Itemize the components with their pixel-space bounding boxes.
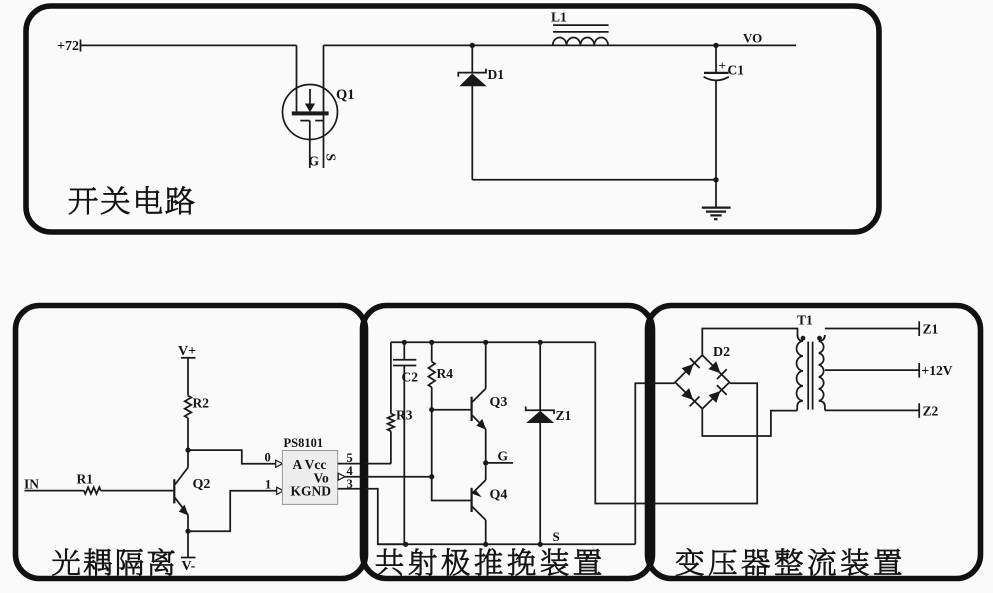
node Q2 emitter junction <box>185 529 190 534</box>
wire IN to R1 <box>25 490 84 492</box>
svg-text:R4: R4 <box>437 366 454 381</box>
node Q2 collector junction <box>185 448 190 453</box>
node V+ tick <box>181 357 196 359</box>
svg-text:S: S <box>553 529 560 544</box>
svg-text:C2: C2 <box>402 370 419 385</box>
svg-text:D2: D2 <box>713 345 730 360</box>
svg-text:C1: C1 <box>728 63 745 78</box>
wire emitter node to opto pin1 <box>188 491 278 531</box>
wire secondary bottom to Z2 terminal <box>825 409 919 411</box>
pin arrow into PS8101 pin K (1) <box>277 487 284 494</box>
node rail/Q3 collector <box>483 340 488 345</box>
svg-text:Z2: Z2 <box>923 404 939 419</box>
wire bridge bottom to T1 primary bottom <box>702 409 797 436</box>
wire G stub <box>486 462 513 464</box>
wire Q1 gate vertical (G) <box>309 121 311 168</box>
node Z2 terminal tick <box>918 403 920 418</box>
node R4/Q3 base <box>429 407 434 412</box>
svg-text:0: 0 <box>265 451 271 465</box>
diode D1 (zener) <box>458 45 486 179</box>
wire pin3 KGND to S rail <box>338 489 406 545</box>
svg-text:Z1: Z1 <box>556 408 572 423</box>
wire emitter to V- <box>187 531 189 557</box>
wire V+ to R2 <box>187 358 189 396</box>
label 光耦隔离 (optocoupler isolation) <box>52 548 174 575</box>
node V- tick <box>181 557 196 559</box>
box: transformer rectifier 变压器整流装置 <box>648 306 981 579</box>
svg-text:D1: D1 <box>488 67 505 82</box>
wire secondary top to Z1 terminal <box>825 328 919 330</box>
node S rail/Q4 emitter <box>483 542 488 547</box>
label 开关电路 (switching circuit) <box>69 186 194 214</box>
wire top rail <box>391 341 595 343</box>
wire Q1 source vertical (S) <box>323 45 325 168</box>
resistor R3 <box>388 414 395 432</box>
node rail/R4 <box>429 340 434 345</box>
wire collector node to opto pin0 <box>188 450 277 464</box>
svg-text:G: G <box>309 154 320 169</box>
svg-text:Q2: Q2 <box>193 477 211 492</box>
wire +72 bus to Q1 drain <box>81 44 297 46</box>
capacitor C1 (polarized) <box>704 45 729 179</box>
node +72 input tick <box>80 40 82 52</box>
wire R1 to Q2 base <box>101 490 175 492</box>
svg-text:5: 5 <box>347 451 353 465</box>
capacitor C2 <box>393 342 416 544</box>
svg-text:Q1: Q1 <box>336 87 355 103</box>
wire top bus Q1 source to VO <box>324 44 797 46</box>
transformer T1 secondary coil <box>819 335 825 410</box>
diode D2b (top-right) <box>709 361 727 379</box>
node rail/C2 <box>402 340 407 345</box>
svg-text:R1: R1 <box>77 472 94 487</box>
svg-text:R2: R2 <box>193 396 210 411</box>
pin arrow into PS8101 pin A (0) <box>276 460 283 467</box>
transistor Q2 (NPN) <box>174 450 188 531</box>
rectifier bridge D2 diamond <box>675 355 729 409</box>
svg-text:+: + <box>719 58 726 73</box>
wire bridge top to T1 primary top <box>702 329 797 356</box>
wire R3 branch top <box>390 342 392 413</box>
transistor Q1 (MOSFET in circle) <box>283 85 338 140</box>
op-amp U1: optocoupler PS8101 <box>282 451 337 505</box>
svg-text:KGND: KGND <box>291 484 332 499</box>
svg-text:Q3: Q3 <box>490 395 508 410</box>
svg-text:Z1: Z1 <box>923 322 939 337</box>
diode D2a (top-left) <box>682 358 700 376</box>
wire S rail to bridge left <box>635 383 675 544</box>
svg-text:PS8101: PS8101 <box>284 436 324 450</box>
resistor R1 <box>84 487 101 494</box>
transformer T1 primary coil <box>797 335 803 411</box>
wire pin5 Vcc to R3 <box>338 463 391 465</box>
node T1 polarity dot secondary <box>817 336 822 341</box>
node pin4 junction <box>429 474 434 479</box>
wire bottom S rail <box>378 543 636 545</box>
transistor Q3 (NPN) <box>472 342 487 463</box>
box: common-emitter push-pull 共射极推挽装置 <box>363 306 653 579</box>
box: optocoupler isolation 光耦隔离 <box>16 306 366 579</box>
svg-text:+12V: +12V <box>922 363 953 378</box>
svg-text:T1: T1 <box>797 313 813 328</box>
wire base column down <box>431 410 433 477</box>
node junction C1/bus <box>713 43 718 48</box>
svg-text:+72: +72 <box>57 39 79 54</box>
diode D2d (bottom-right) <box>709 385 727 403</box>
wire secondary center tap to +12V <box>825 369 919 371</box>
wire R3 to pin5 line <box>390 431 392 463</box>
diode Z1 (zener clamp) <box>526 342 555 544</box>
ground symbol <box>702 180 731 219</box>
svg-text:L1: L1 <box>551 10 567 25</box>
resistor R2 <box>185 396 192 418</box>
svg-text:1: 1 <box>265 478 271 492</box>
svg-text:G: G <box>498 449 509 464</box>
node G junction <box>483 460 488 465</box>
svg-text:Q4: Q4 <box>490 488 508 503</box>
label 变压器整流装置 (transformer rectifier) <box>676 548 901 575</box>
node S rail/Z1 <box>538 542 543 547</box>
wire Q1 drain vertical <box>296 45 298 111</box>
svg-text:S: S <box>323 154 338 162</box>
transistor Q4 (PNP) <box>472 463 486 544</box>
node rail/Z1 <box>538 340 543 345</box>
node T1 polarity dot primary <box>801 336 806 341</box>
wire pin4 node to Q4 base <box>432 477 472 501</box>
inductor L1 <box>553 25 609 45</box>
node junction D1/bus <box>470 43 475 48</box>
resistor R4 <box>428 342 435 409</box>
wire rail to bridge via right drop <box>595 342 757 503</box>
wire pin4 Vo to push-pull bases <box>345 476 432 478</box>
node Z1 terminal tick <box>918 321 920 336</box>
svg-text:V+: V+ <box>178 344 196 359</box>
label 共射极推挽装置 (common-emitter push-pull) <box>376 548 601 575</box>
pin arrow out of Vo (4) <box>338 473 345 480</box>
node S rail/C2 <box>403 542 408 547</box>
diode D2c (bottom-left) <box>681 388 699 406</box>
wire bottom return D1 to C1 <box>472 179 716 181</box>
node +12V terminal tick <box>918 363 920 378</box>
wire R2 to collector node <box>187 418 189 450</box>
svg-text:IN: IN <box>24 476 39 491</box>
svg-text:V-: V- <box>182 559 196 574</box>
svg-text:VO: VO <box>743 31 762 46</box>
transformer T1 core <box>808 342 812 410</box>
wire Q3 base stub <box>432 409 472 411</box>
node junction C1 bottom <box>713 177 718 182</box>
box: switching circuit 开关电路 <box>26 6 879 232</box>
